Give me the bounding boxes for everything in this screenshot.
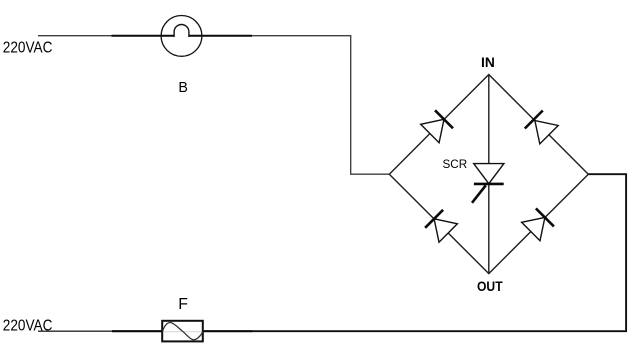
bridge diamond	[389, 75, 588, 274]
SCR U1	[472, 164, 504, 203]
fuse internal faint line	[164, 331, 202, 333]
diode D2 top-right	[525, 111, 558, 144]
wire bottom left thin	[38, 330, 112, 332]
wire fuse lead left	[112, 330, 162, 332]
wire bridge center vertical	[488, 75, 490, 274]
lamp B circle	[161, 16, 202, 57]
svg-text:B: B	[178, 80, 188, 96]
lamp B filament dome	[174, 25, 189, 38]
wire lamp lead right	[189, 35, 252, 37]
svg-text:F: F	[178, 296, 188, 313]
svg-text:SCR: SCR	[443, 158, 468, 171]
wire top: source to corner	[38, 36, 389, 175]
fuse F body	[162, 321, 203, 342]
wire bottom right	[253, 330, 628, 332]
svg-text:220VAC: 220VAC	[3, 40, 53, 57]
svg-text:IN: IN	[481, 55, 495, 70]
diode D1 top-left	[421, 110, 453, 142]
wire fuse lead right	[203, 330, 253, 332]
wire lamp lead left	[112, 35, 175, 37]
svg-text:OUT: OUT	[477, 279, 503, 294]
wire right loop	[588, 174, 626, 331]
diode D3 bottom-left	[425, 210, 457, 242]
diode D4 bottom-right	[522, 208, 554, 240]
fuse sine wave	[163, 323, 204, 340]
